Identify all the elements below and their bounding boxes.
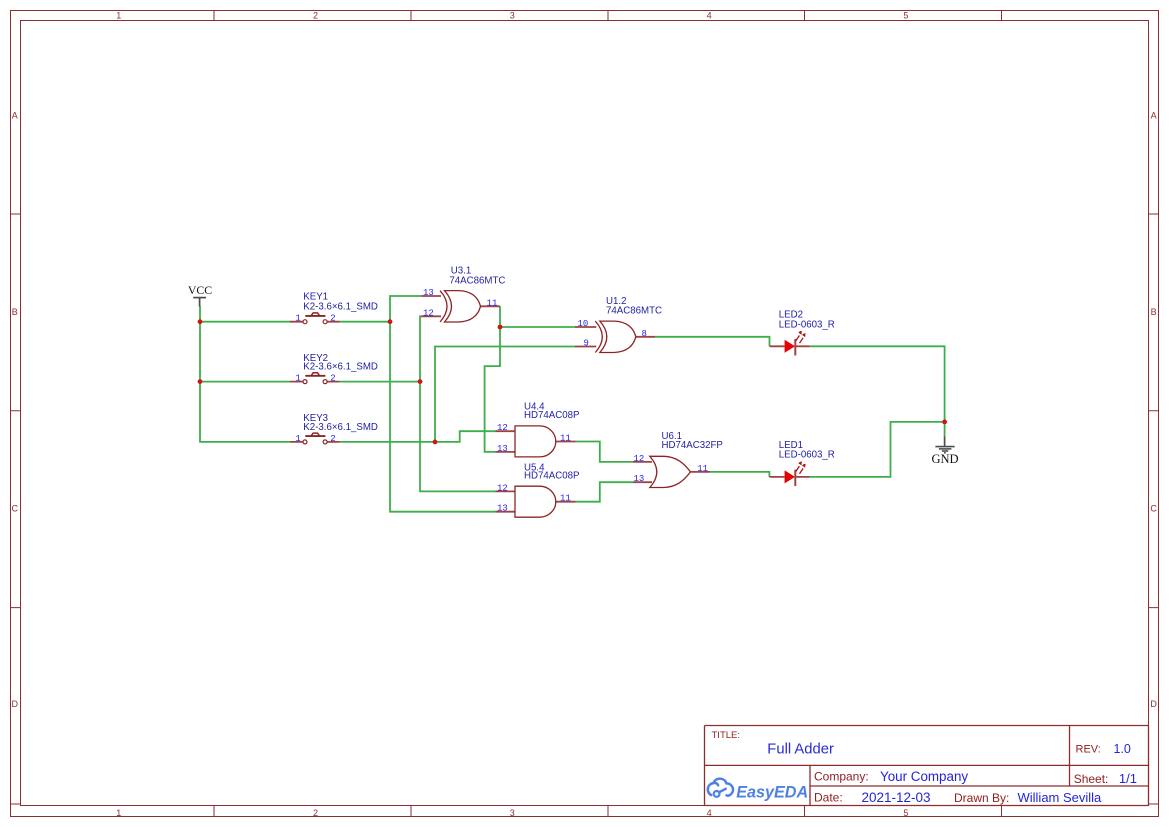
wire KEY3 pin2 to node C then step up to U4.4 pin12 (340, 431, 496, 442)
svg-text:K2-3.6×6.1_SMD: K2-3.6×6.1_SMD (303, 302, 378, 313)
VCC power symbol (188, 283, 212, 307)
junction at VCC rail / KEY1 (198, 319, 203, 324)
svg-text:K2-3.6×6.1_SMD: K2-3.6×6.1_SMD (303, 362, 378, 373)
svg-text:A: A (1151, 111, 1157, 121)
and gate U4.4 HD74AC08P (496, 402, 580, 457)
svg-text:12: 12 (497, 423, 508, 433)
junction node C (433, 440, 438, 445)
switch KEY2 (290, 353, 378, 384)
svg-text:2: 2 (313, 808, 318, 818)
svg-text:B: B (1151, 307, 1157, 317)
wire U3.1 output down to node D (499, 306, 501, 327)
svg-text:13: 13 (497, 444, 508, 454)
svg-text:5: 5 (903, 808, 908, 818)
svg-text:11: 11 (560, 433, 571, 443)
svg-text:3: 3 (510, 11, 515, 21)
wire node C up to U1.2 pin9 (435, 347, 575, 442)
xor gate U3.1 74AC86MTC (421, 266, 506, 322)
svg-text:HD74AC08P: HD74AC08P (524, 471, 579, 482)
svg-text:2: 2 (330, 374, 335, 384)
wire node D to U1.2 pin10 (500, 326, 575, 328)
svg-text:TITLE:: TITLE: (712, 730, 741, 741)
junction node A (388, 319, 393, 324)
svg-text:12: 12 (634, 454, 645, 464)
wire LED1 cathode up to GND node E (810, 422, 945, 477)
LED1 LED-0603_R (769, 440, 834, 486)
or gate U6.1 HD74AC32FP (633, 431, 723, 488)
wire VCC rail from VCC symbol down to KEY3 row then to KEY3 pin1 (200, 306, 290, 442)
svg-text:Your Company: Your Company (880, 769, 968, 784)
svg-text:Sheet:: Sheet: (1074, 772, 1109, 786)
svg-text:D: D (1150, 699, 1157, 709)
wire node D down and left to U4.4 pin13 (485, 327, 500, 452)
svg-text:2: 2 (330, 434, 335, 444)
wire U6.1 pin11 output to LED1 anode with jog (710, 472, 769, 477)
wire U5.4 pin11 output to U6.1 pin13 (576, 482, 634, 502)
svg-text:1.0: 1.0 (1114, 742, 1131, 756)
svg-text:Full Adder: Full Adder (767, 742, 834, 758)
svg-text:1: 1 (116, 11, 121, 21)
svg-text:A: A (12, 111, 18, 121)
svg-text:HD74AC32FP: HD74AC32FP (662, 440, 723, 451)
svg-text:1: 1 (116, 808, 121, 818)
svg-text:2: 2 (330, 314, 335, 324)
svg-text:LED-0603_R: LED-0603_R (779, 450, 835, 461)
svg-text:Company:: Company: (814, 770, 869, 784)
junction node E at GND (942, 420, 947, 425)
svg-text:C: C (12, 504, 19, 514)
wire U4.4 pin11 output to U6.1 pin12 (576, 442, 634, 462)
svg-text:74AC86MTC: 74AC86MTC (449, 275, 505, 286)
EasyEDA logo (708, 779, 808, 802)
svg-text:3: 3 (510, 808, 515, 818)
svg-text:2021-12-03: 2021-12-03 (862, 790, 931, 805)
svg-text:GND: GND (931, 452, 958, 466)
wire VCC rail to KEY1 pin1 (200, 321, 290, 323)
junction node B (418, 379, 423, 384)
svg-text:12: 12 (423, 308, 434, 318)
wire LED2 cathode to GND node E (810, 346, 945, 437)
svg-text:4: 4 (707, 808, 712, 818)
switch KEY1 (290, 292, 378, 324)
wire U1.2 pin8 output to LED2 anode with jog (655, 337, 770, 347)
svg-text:4: 4 (707, 11, 712, 21)
svg-text:1: 1 (295, 374, 300, 384)
junction at VCC rail / KEY2 (198, 379, 203, 384)
svg-text:5: 5 (903, 11, 908, 21)
and gate U5.4 HD74AC08P (496, 462, 580, 517)
wire KEY1 pin2 to node A (340, 321, 390, 323)
wire node B vertical to U3.1 pin12 and U5.4 pin12 (420, 316, 496, 491)
LED2 LED-0603_R (770, 310, 835, 356)
svg-text:11: 11 (697, 464, 708, 474)
svg-text:10: 10 (578, 319, 589, 329)
svg-text:William Sevilla: William Sevilla (1018, 790, 1103, 805)
svg-text:Date:: Date: (814, 791, 843, 805)
svg-text:LED-0603_R: LED-0603_R (779, 320, 835, 331)
svg-text:2: 2 (313, 11, 318, 21)
svg-text:9: 9 (584, 339, 589, 349)
ground GND (931, 437, 958, 466)
svg-text:Drawn By:: Drawn By: (954, 791, 1009, 805)
svg-text:11: 11 (560, 494, 571, 504)
svg-text:13: 13 (497, 504, 508, 514)
svg-text:EasyEDA: EasyEDA (736, 783, 808, 801)
xor gate U1.2 74AC86MTC (575, 296, 662, 352)
svg-text:13: 13 (634, 474, 645, 484)
svg-text:1: 1 (295, 314, 300, 324)
svg-text:8: 8 (642, 329, 647, 339)
svg-text:K2-3.6×6.1_SMD: K2-3.6×6.1_SMD (303, 422, 378, 433)
wire KEY2 pin2 to node B (340, 381, 420, 383)
svg-text:D: D (12, 699, 19, 709)
svg-text:REV:: REV: (1076, 744, 1101, 756)
svg-text:13: 13 (423, 288, 434, 298)
svg-text:HD74AC08P: HD74AC08P (524, 410, 579, 421)
wire node A vertical to U3.1 pin13 and U5.4 pin13 (390, 296, 496, 512)
TITLE BLOCK (705, 726, 1149, 806)
svg-text:1/1: 1/1 (1119, 771, 1137, 786)
svg-text:11: 11 (487, 298, 498, 308)
wire VCC rail to KEY2 pin1 (200, 381, 290, 383)
svg-text:1: 1 (295, 434, 300, 444)
svg-text:12: 12 (497, 483, 508, 493)
switch KEY3 (290, 413, 378, 444)
svg-text:B: B (12, 307, 18, 317)
svg-text:VCC: VCC (188, 283, 212, 297)
svg-text:74AC86MTC: 74AC86MTC (606, 306, 662, 317)
junction node D (498, 325, 503, 330)
svg-text:C: C (1150, 504, 1157, 514)
